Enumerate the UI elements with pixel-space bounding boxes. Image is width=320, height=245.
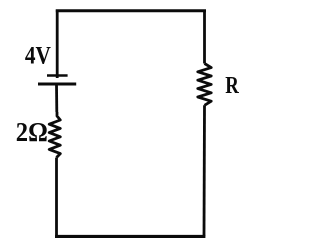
svg-text:4V: 4V xyxy=(25,43,51,70)
svg-text:R: R xyxy=(225,72,239,99)
svg-text:2Ω: 2Ω xyxy=(16,116,48,147)
